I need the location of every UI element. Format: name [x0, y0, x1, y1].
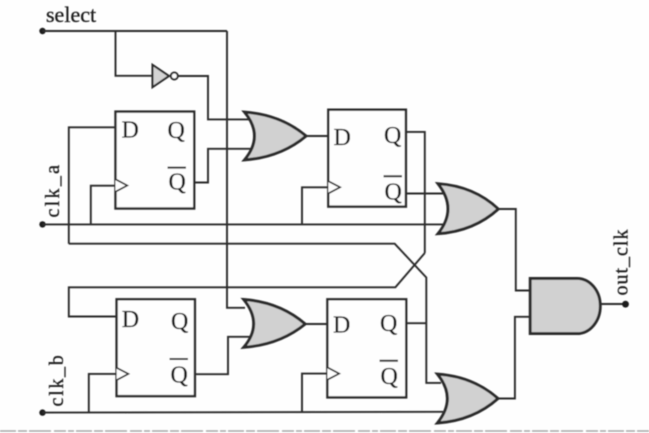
wire inverter output to OR1 top input	[178, 76, 252, 119]
dff FF1	[116, 112, 195, 209]
wire FF1 clock from clk_a	[91, 186, 116, 225]
wire AND output to out_clk	[600, 303, 624, 305]
svg-text:D: D	[122, 307, 139, 333]
dff FF2	[328, 110, 406, 207]
wire clk_a bus to OR3 bottom input	[43, 223, 444, 225]
wire net A horizontal and crossover to OR4	[69, 244, 441, 383]
inverter U1	[153, 65, 178, 87]
svg-text:select: select	[46, 2, 96, 27]
or-gate OR4	[437, 374, 498, 423]
svg-text:Q: Q	[171, 363, 188, 389]
svg-text:Q: Q	[381, 364, 398, 390]
wire FF2 clock from clk_a	[302, 187, 328, 224]
dff FF4	[327, 299, 406, 397]
scan artifact bottom rule	[0, 430, 649, 432]
and-gate U7	[530, 278, 600, 333]
wire clk_b bus to OR4 bottom input	[43, 411, 444, 414]
wire select horizontal	[43, 30, 228, 32]
wire OR4 output to AND bottom input	[498, 317, 530, 399]
or-gate OR1	[245, 112, 307, 160]
svg-text:Q: Q	[169, 170, 186, 196]
wire FF3 Qbar to OR2 bottom input	[195, 337, 251, 374]
node select	[39, 2, 96, 34]
svg-text:Q: Q	[168, 118, 185, 144]
wire FF2 Qbar to OR3 top input	[406, 193, 444, 195]
svg-text:out_clk: out_clk	[611, 229, 633, 296]
svg-text:clk_b: clk_b	[46, 354, 68, 407]
wire OR3 output to AND top input	[498, 209, 530, 291]
wire OR1 output to FF2 D	[306, 135, 328, 137]
or-gate OR3	[438, 184, 498, 234]
svg-text:D: D	[122, 118, 139, 144]
svg-text:Q: Q	[171, 309, 188, 335]
wire FF4 Q stub to net A	[406, 322, 426, 324]
svg-text:Q: Q	[384, 123, 401, 149]
wire FF1 D input (from crossover net A)	[69, 127, 116, 243]
wire crossover diagonal B to FF3 D	[69, 253, 425, 317]
svg-text:Q: Q	[385, 180, 402, 206]
wire select to inverter input	[116, 31, 153, 76]
wire FF3 clock from clk_b	[89, 374, 117, 413]
wire FF2 Q down to crossover (net B)	[406, 132, 425, 253]
wire select vertical to OR2	[227, 31, 245, 308]
dff FF3	[117, 299, 195, 396]
svg-text:Q: Q	[380, 311, 397, 337]
or-gate OR2	[244, 300, 306, 348]
svg-text:clk_a: clk_a	[42, 163, 64, 218]
wire FF4 clock from clk_b	[302, 374, 327, 413]
node out_clk	[611, 229, 633, 308]
svg-text:D: D	[334, 125, 351, 151]
node clk_a	[39, 163, 64, 228]
svg-text:D: D	[333, 313, 350, 339]
wire OR2 output to FF4 D	[305, 323, 327, 325]
wire FF1 Qbar to OR1 bottom input	[194, 149, 252, 183]
node clk_b	[39, 354, 68, 416]
